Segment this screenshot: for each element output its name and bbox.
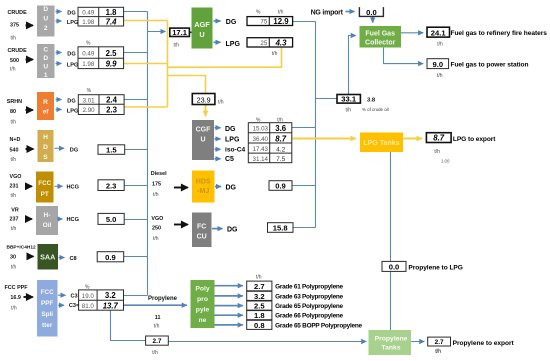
svg-text:%: % bbox=[86, 41, 91, 47]
svg-text:19.0: 19.0 bbox=[82, 293, 95, 300]
box 33.1 total DG bbox=[337, 95, 360, 104]
table FCC PPF splitter outputs bbox=[79, 290, 124, 311]
table CDU1 outputs bbox=[78, 47, 124, 69]
unit FCC PPF Splitter bbox=[37, 280, 58, 337]
svg-text:Spli: Spli bbox=[41, 311, 53, 318]
label 11 t/h polypropylene total bbox=[154, 315, 161, 329]
svg-text:Propylene to export: Propylene to export bbox=[453, 340, 515, 347]
stream arrow HCG FCCPT bbox=[55, 184, 79, 190]
svg-text:LPG: LPG bbox=[225, 136, 240, 143]
svg-text:t/h: t/h bbox=[11, 36, 17, 42]
label t/h under 2.7 export bbox=[436, 349, 442, 355]
svg-text:t/h: t/h bbox=[11, 193, 17, 199]
svg-text:t/h: t/h bbox=[277, 118, 283, 124]
svg-text:9.0: 9.0 bbox=[433, 60, 444, 69]
svg-text:C3=: C3= bbox=[69, 303, 80, 309]
svg-text:DG: DG bbox=[226, 19, 237, 26]
box 15.8 FCCU DG bbox=[268, 223, 294, 233]
svg-text:11: 11 bbox=[155, 315, 161, 321]
svg-text:Grade 63 Polypropylene: Grade 63 Polypropylene bbox=[275, 293, 343, 300]
label feed SRHN 80 t/h bbox=[7, 99, 22, 126]
wire CGFU DG 3.6 to right trunk bbox=[292, 127, 316, 129]
header t/h grade boxes bbox=[256, 275, 262, 281]
stream arrows and labels CDU1 bbox=[56, 51, 79, 68]
wire AGFU LPG 4.3 down to yellow trunk bbox=[168, 47, 282, 67]
svg-text:C3: C3 bbox=[71, 294, 78, 300]
label t/h under 4.3 bbox=[272, 51, 278, 57]
svg-text:VGO: VGO bbox=[10, 174, 22, 180]
svg-text:3.6: 3.6 bbox=[275, 124, 287, 133]
svg-text:31.14: 31.14 bbox=[253, 156, 269, 163]
wire right DG trunk vertical bbox=[315, 22, 317, 228]
label feed CRUDE 500 t/h bbox=[8, 48, 28, 72]
svg-text:17.1: 17.1 bbox=[172, 28, 188, 37]
headers % t/h AGFU table bbox=[256, 10, 284, 16]
svg-text:Grade 61 Polypropylene: Grade 61 Polypropylene bbox=[275, 284, 343, 291]
svg-text:LPG Tanks: LPG Tanks bbox=[363, 140, 399, 147]
wire splitter table to 2.7 bbox=[111, 310, 146, 340]
svg-text:U: U bbox=[43, 64, 48, 71]
svg-text:2.4: 2.4 bbox=[106, 96, 118, 105]
svg-text:1: 1 bbox=[44, 72, 48, 79]
svg-text:iso-C4: iso-C4 bbox=[225, 147, 245, 154]
svg-text:ef: ef bbox=[43, 109, 50, 116]
svg-text:2.90: 2.90 bbox=[83, 107, 96, 114]
svg-text:PPF: PPF bbox=[41, 300, 54, 307]
box 0.9 SAA C8 bbox=[97, 252, 124, 262]
svg-text:N+D: N+D bbox=[10, 137, 21, 143]
svg-text:%: % bbox=[256, 10, 261, 16]
svg-text:D: D bbox=[43, 55, 48, 62]
label feed CRUDE 375 t/h bbox=[8, 10, 28, 42]
stream arrow HCG H-Oil bbox=[59, 217, 79, 223]
svg-text:17.43: 17.43 bbox=[253, 146, 269, 153]
wire HCG FCCPT to left trunk bbox=[124, 185, 147, 187]
svg-text:FCC: FCC bbox=[41, 289, 55, 296]
svg-text:DG: DG bbox=[67, 51, 75, 57]
svg-text:0.8: 0.8 bbox=[254, 321, 265, 330]
svg-text:Fuel Gas: Fuel Gas bbox=[365, 31, 395, 38]
label fuel gas to refinery fire heaters bbox=[437, 30, 547, 47]
label grade 61 polypropylene bbox=[275, 284, 343, 291]
wire C3= 13.7 to Polypropylene bbox=[124, 304, 187, 306]
svg-text:t/h: t/h bbox=[153, 192, 159, 198]
wire LPG CDU2 to yellow trunk bbox=[124, 20, 168, 22]
wire NG import arrow bbox=[346, 11, 355, 13]
svg-text:t/h: t/h bbox=[437, 42, 443, 48]
svg-text:2.7: 2.7 bbox=[254, 282, 265, 291]
unit FCCU bbox=[192, 213, 212, 248]
wire left gas trunk vertical bbox=[147, 12, 149, 296]
svg-text:Grade 65 Polypropylene: Grade 65 Polypropylene bbox=[275, 303, 343, 310]
svg-text:DG: DG bbox=[227, 227, 238, 234]
unit Propylene Tanks bbox=[369, 330, 412, 355]
svg-text:15.03: 15.03 bbox=[253, 126, 269, 133]
svg-text:DG: DG bbox=[225, 126, 236, 133]
svg-text:CRUDE: CRUDE bbox=[8, 48, 28, 54]
svg-text:4.3: 4.3 bbox=[275, 38, 288, 47]
label t/h right of 23.9 bbox=[218, 99, 224, 105]
wire C8 SAA to left trunk bbox=[124, 256, 148, 258]
unit Ref bbox=[37, 92, 54, 120]
box 2.3 FCCPT HCG bbox=[98, 180, 124, 191]
svg-text:Propylene to LPG: Propylene to LPG bbox=[408, 265, 463, 272]
svg-text:C8: C8 bbox=[70, 256, 77, 262]
svg-text:t/h: t/h bbox=[174, 42, 180, 48]
stream arrow HDS-MJ DG bbox=[215, 185, 237, 192]
svg-text:1.8: 1.8 bbox=[106, 8, 118, 17]
label NG import bbox=[311, 9, 344, 16]
svg-text:SRHN: SRHN bbox=[7, 99, 22, 105]
label Propylene stream bbox=[148, 296, 178, 302]
table AGFU LPG row 25/4.3 bbox=[247, 38, 293, 48]
svg-text:1.8: 1.8 bbox=[254, 311, 265, 320]
svg-text:HCG: HCG bbox=[67, 184, 79, 190]
svg-text:t/h: t/h bbox=[278, 10, 284, 16]
svg-text:7.4: 7.4 bbox=[106, 18, 118, 27]
label feed FCC PPF 16.9 t/h bbox=[5, 285, 29, 311]
box 24.1 fuel gas to heaters bbox=[427, 27, 450, 37]
unit SAA bbox=[38, 244, 59, 270]
svg-text:H: H bbox=[43, 134, 48, 141]
svg-text:t/h: t/h bbox=[11, 305, 17, 311]
wire 33.1 up to Fuel Gas Collector bbox=[349, 36, 356, 95]
svg-text:3.2: 3.2 bbox=[105, 291, 117, 300]
svg-text:36.40: 36.40 bbox=[253, 136, 269, 143]
wire Propylene Tanks to 2.7 export bbox=[411, 341, 424, 343]
label feed BBP+iC4H12 30 t/h bbox=[7, 245, 37, 271]
svg-text:HDS: HDS bbox=[196, 179, 211, 186]
box 0.0 propylene to LPG bbox=[382, 261, 406, 271]
svg-text:LPG to export: LPG to export bbox=[453, 136, 496, 143]
feed arrow VGO 250 to FCCU bbox=[174, 224, 188, 226]
stream arrow DG HDS bbox=[55, 148, 79, 154]
svg-text:3.01: 3.01 bbox=[83, 97, 96, 104]
svg-text:1.98: 1.98 bbox=[82, 19, 95, 26]
svg-text:FCC: FCC bbox=[38, 180, 51, 187]
feed arrow VR 237 bbox=[26, 218, 32, 220]
feed arrow CRUDE 375 bbox=[26, 24, 33, 26]
svg-text:DG: DG bbox=[67, 10, 75, 16]
svg-text:237: 237 bbox=[10, 217, 19, 223]
svg-text:24.1: 24.1 bbox=[431, 28, 447, 37]
box 9.0 fuel gas to power bbox=[427, 59, 449, 69]
box 5.0 H-Oil HCG bbox=[98, 213, 124, 224]
label feed VR 237 t/h bbox=[10, 208, 19, 233]
svg-text:2: 2 bbox=[44, 25, 48, 32]
svg-text:Propylene: Propylene bbox=[375, 336, 408, 343]
svg-text:U: U bbox=[43, 16, 48, 23]
label Diesel 175 t/h bbox=[151, 171, 167, 198]
svg-text:t/h: t/h bbox=[11, 265, 17, 271]
svg-text:8.7: 8.7 bbox=[275, 134, 287, 143]
svg-text:Grade 65 BOPP Polypropylene: Grade 65 BOPP Polypropylene bbox=[275, 323, 362, 330]
svg-text:0.49: 0.49 bbox=[82, 50, 95, 57]
svg-text:13.7: 13.7 bbox=[103, 301, 119, 310]
svg-text:t/h: t/h bbox=[434, 149, 440, 155]
svg-text:2.7: 2.7 bbox=[153, 338, 162, 345]
svg-text:CRUDE: CRUDE bbox=[8, 10, 28, 16]
svg-text:pro: pro bbox=[197, 296, 208, 303]
svg-text:t/h: t/h bbox=[272, 51, 278, 57]
svg-text:PT: PT bbox=[41, 191, 49, 198]
unit H-Oil bbox=[36, 206, 58, 235]
svg-text:LPG: LPG bbox=[226, 41, 241, 48]
svg-text:Poly: Poly bbox=[195, 286, 210, 293]
svg-text:pyle: pyle bbox=[196, 307, 210, 314]
svg-text:75: 75 bbox=[260, 19, 267, 26]
stream arrows C3 C3= splitter bbox=[58, 294, 80, 310]
svg-text:3.8: 3.8 bbox=[367, 97, 376, 103]
label propylene to export bbox=[435, 340, 514, 355]
svg-text:AGF: AGF bbox=[194, 20, 210, 29]
svg-text:1.5: 1.5 bbox=[106, 146, 117, 155]
svg-text:Grade 66 Polypropylene: Grade 66 Polypropylene bbox=[275, 313, 343, 320]
svg-text:C5: C5 bbox=[225, 156, 234, 163]
svg-text:% of crude oil: % of crude oil bbox=[362, 107, 389, 112]
svg-text:t/h: t/h bbox=[153, 236, 159, 242]
svg-text:1.00: 1.00 bbox=[441, 158, 450, 163]
feed arrow N+D 540 bbox=[26, 148, 34, 150]
box NG import 0.0 bbox=[359, 7, 383, 17]
box grade 63 3.2 bbox=[247, 291, 272, 301]
svg-text:12.9: 12.9 bbox=[273, 17, 289, 26]
table CGFU outputs bbox=[248, 123, 291, 164]
svg-text:t/h: t/h bbox=[10, 67, 16, 73]
stream arrows CGFU DG LPG iso-C4 C5 bbox=[215, 126, 246, 163]
svg-text:%: % bbox=[256, 118, 261, 124]
svg-text:0.49: 0.49 bbox=[82, 10, 95, 17]
svg-text:8.7: 8.7 bbox=[433, 134, 445, 143]
wire yellow trunk to 23.9 box bbox=[168, 76, 206, 95]
svg-text:0.0: 0.0 bbox=[366, 8, 377, 17]
svg-text:VR: VR bbox=[11, 208, 19, 214]
wire 23.9 arrow into CGFU bbox=[205, 104, 207, 116]
box grade 65 2.5 bbox=[247, 301, 272, 311]
svg-text:CU: CU bbox=[197, 234, 207, 241]
unit CDU2 bbox=[37, 6, 55, 37]
svg-text:H-: H- bbox=[44, 212, 51, 219]
box grade 65 BOPP 0.8 bbox=[247, 320, 272, 330]
svg-text:t/h: t/h bbox=[11, 226, 17, 232]
unit CDU1 bbox=[37, 44, 55, 79]
svg-text:ne: ne bbox=[199, 317, 207, 324]
svg-text:t/h: t/h bbox=[152, 350, 158, 356]
wire AGFU DG 12.9 to right trunk bbox=[293, 21, 316, 23]
stream arrow C8 SAA bbox=[59, 256, 77, 262]
svg-text:0.9: 0.9 bbox=[105, 253, 116, 262]
svg-text:t/h: t/h bbox=[437, 73, 443, 79]
wire DG CDU2 to left trunk bbox=[124, 11, 148, 13]
label propylene to LPG bbox=[408, 265, 463, 272]
svg-text:Fuel gas to power station: Fuel gas to power station bbox=[451, 62, 529, 69]
svg-text:375: 375 bbox=[10, 23, 19, 29]
feed arrow VGO 231 bbox=[26, 185, 32, 187]
wire yellow LPG trunk vertical bbox=[167, 21, 169, 108]
stream arrow FCCU DG bbox=[212, 227, 238, 234]
wire LPG Ref to yellow trunk bbox=[124, 106, 167, 108]
svg-text:540: 540 bbox=[10, 147, 19, 153]
box 2.7 propylene line bbox=[146, 336, 169, 345]
svg-text:81.0: 81.0 bbox=[82, 303, 95, 310]
label feed N+D 540 t/h bbox=[10, 137, 21, 163]
svg-text:3.2: 3.2 bbox=[254, 292, 265, 301]
unit HDS-MJ bbox=[192, 171, 215, 203]
header % Ref bbox=[87, 88, 92, 94]
svg-text:0.9: 0.9 bbox=[275, 182, 286, 191]
svg-text:2.3: 2.3 bbox=[106, 181, 117, 190]
svg-text:R: R bbox=[43, 99, 48, 106]
svg-text:CGF: CGF bbox=[196, 127, 212, 134]
svg-text:D: D bbox=[43, 6, 48, 13]
svg-text:D: D bbox=[43, 144, 48, 151]
svg-text:%: % bbox=[87, 88, 92, 94]
svg-text:Tanks: Tanks bbox=[381, 345, 400, 352]
wire LPG CDU1 to yellow trunk bbox=[124, 63, 168, 65]
svg-text:S: S bbox=[43, 154, 48, 161]
wire DG HDS to left trunk bbox=[125, 149, 148, 151]
box 1.5 HDS DG bbox=[98, 145, 125, 155]
table Ref outputs bbox=[78, 95, 124, 115]
table CDU2 outputs bbox=[78, 7, 124, 26]
label VGO 250 t/h bbox=[151, 216, 163, 242]
wire NG 0.0 down to collector bbox=[372, 17, 374, 23]
box 17.1 AGFU feed bbox=[170, 28, 190, 37]
wire FCCU DG 15.8 to right trunk bbox=[293, 227, 316, 229]
table AGFU DG row 75/12.9 bbox=[247, 17, 293, 26]
label t/h under 2.7 left bbox=[152, 350, 158, 356]
box 2.7 propylene export bbox=[428, 337, 451, 346]
svg-text:1.98: 1.98 bbox=[82, 61, 95, 68]
box 8.7 LPG export bbox=[426, 133, 451, 143]
feed arrow CRUDE 500 bbox=[26, 59, 33, 61]
svg-text:25: 25 bbox=[260, 40, 267, 47]
svg-text:30: 30 bbox=[10, 255, 16, 261]
svg-text:NG import: NG import bbox=[311, 9, 344, 16]
svg-text:Fuel gas to refinery fire heat: Fuel gas to refinery fire heaters bbox=[451, 30, 548, 37]
svg-text:%: % bbox=[85, 285, 90, 291]
svg-text:Diesel: Diesel bbox=[151, 171, 167, 177]
header % CDU1 bbox=[86, 41, 91, 47]
label fuel gas to power station bbox=[437, 62, 529, 79]
feed arrow BBP 30 bbox=[28, 255, 34, 257]
stream arrows AGFU DG LPG bbox=[214, 19, 241, 48]
svg-text:2.5: 2.5 bbox=[106, 49, 118, 58]
wire Polypropylene to grade boxes bbox=[215, 286, 243, 325]
wire collector to 24.1 bbox=[401, 32, 424, 34]
wire propylene-LPG vertical bbox=[390, 152, 392, 331]
unit LPG Tanks bbox=[360, 133, 403, 153]
label grade 63 polypropylene bbox=[275, 293, 343, 300]
wire DG CDU1 to left trunk bbox=[124, 52, 148, 54]
headers % t/h CGFU table bbox=[256, 118, 283, 124]
wire DG Ref to left trunk bbox=[124, 99, 147, 101]
box grade 66 1.8 bbox=[247, 311, 272, 321]
wire CGFU LPG 8.7 to LPG Tanks bbox=[292, 138, 356, 140]
svg-text:2.7: 2.7 bbox=[435, 339, 444, 346]
svg-text:t/h: t/h bbox=[154, 323, 160, 329]
svg-text:t/h: t/h bbox=[436, 349, 442, 355]
svg-text:2.5: 2.5 bbox=[254, 302, 265, 311]
label LPG to export bbox=[434, 136, 496, 163]
label 3.8 pct of crude bbox=[362, 97, 389, 112]
label grade 65 BOPP polypropylene bbox=[275, 323, 362, 330]
svg-text:FCC PPF: FCC PPF bbox=[5, 285, 29, 291]
label feed VGO 231 t/h bbox=[10, 174, 22, 199]
svg-text:LPG: LPG bbox=[67, 20, 79, 26]
wire trunk to AGFU feed arrow bbox=[148, 31, 166, 33]
unit FCC PT bbox=[36, 172, 54, 203]
svg-text:16.9: 16.9 bbox=[10, 295, 21, 301]
svg-text:t/h: t/h bbox=[256, 275, 262, 281]
svg-text:250: 250 bbox=[152, 226, 161, 232]
svg-text:t/h: t/h bbox=[11, 157, 17, 163]
svg-text:tter: tter bbox=[42, 322, 53, 329]
wire 2.7 to Propylene Tanks bbox=[168, 341, 366, 343]
svg-text:4.2: 4.2 bbox=[276, 146, 285, 153]
svg-text:DG: DG bbox=[226, 185, 237, 192]
feed arrow Diesel 175 to HDS-MJ bbox=[174, 187, 188, 189]
wire right trunk to 33.1 box bbox=[316, 98, 338, 100]
unit CGFU bbox=[192, 120, 214, 160]
stream arrows and labels Ref bbox=[56, 99, 79, 115]
svg-text:FC: FC bbox=[197, 224, 206, 231]
svg-text:t/h: t/h bbox=[11, 120, 17, 126]
svg-text:DG: DG bbox=[70, 148, 78, 154]
svg-text:175: 175 bbox=[152, 181, 161, 187]
svg-text:LPG: LPG bbox=[67, 62, 79, 68]
svg-text:-MJ: -MJ bbox=[197, 188, 209, 195]
wire HDS-MJ DG 0.9 to right trunk bbox=[292, 185, 316, 187]
feed arrow SRHN 80 bbox=[26, 109, 33, 111]
wire collector to 9.0 bbox=[384, 48, 424, 64]
svg-text:VGO: VGO bbox=[151, 216, 163, 222]
svg-text:33.1: 33.1 bbox=[341, 95, 357, 104]
svg-text:9.9: 9.9 bbox=[106, 60, 118, 69]
label grade 66 polypropylene bbox=[275, 313, 343, 320]
box 0.9 HDS-MJ DG bbox=[269, 181, 292, 191]
label t/h under 33.1 bbox=[346, 108, 352, 114]
wire HCG H-Oil to left trunk bbox=[124, 219, 147, 221]
svg-text:0.0: 0.0 bbox=[389, 262, 400, 271]
wire LPG Tanks to 8.7 export bbox=[403, 138, 422, 140]
svg-text:t/h: t/h bbox=[346, 108, 352, 114]
svg-text:23.9: 23.9 bbox=[197, 95, 211, 104]
svg-text:U: U bbox=[199, 30, 204, 39]
svg-text:t/h: t/h bbox=[218, 99, 224, 105]
wire 17.1 box to AGFU bbox=[189, 31, 191, 33]
svg-text:U: U bbox=[200, 137, 205, 144]
svg-text:15.8: 15.8 bbox=[273, 224, 288, 233]
header % splitter bbox=[85, 285, 90, 291]
unit HDS bbox=[38, 130, 54, 162]
svg-text:BBP+iC4H12: BBP+iC4H12 bbox=[7, 245, 37, 251]
svg-text:DG: DG bbox=[67, 99, 75, 105]
svg-text:SAA: SAA bbox=[40, 253, 55, 262]
unit AGFU bbox=[192, 8, 213, 49]
svg-text:Collector: Collector bbox=[365, 39, 396, 46]
svg-text:231: 231 bbox=[10, 184, 19, 190]
svg-text:5.0: 5.0 bbox=[106, 215, 117, 224]
box 23.9 CGFU feed bbox=[192, 94, 215, 105]
svg-text:7.5: 7.5 bbox=[276, 156, 285, 163]
box grade 61 2.7 bbox=[247, 281, 272, 291]
feed arrow FCC PPF 16.9 bbox=[24, 296, 33, 298]
label grade 65 polypropylene bbox=[275, 303, 343, 310]
svg-text:LPG: LPG bbox=[67, 109, 79, 115]
svg-text:500: 500 bbox=[10, 58, 19, 64]
unit Polypropylene bbox=[191, 280, 215, 328]
